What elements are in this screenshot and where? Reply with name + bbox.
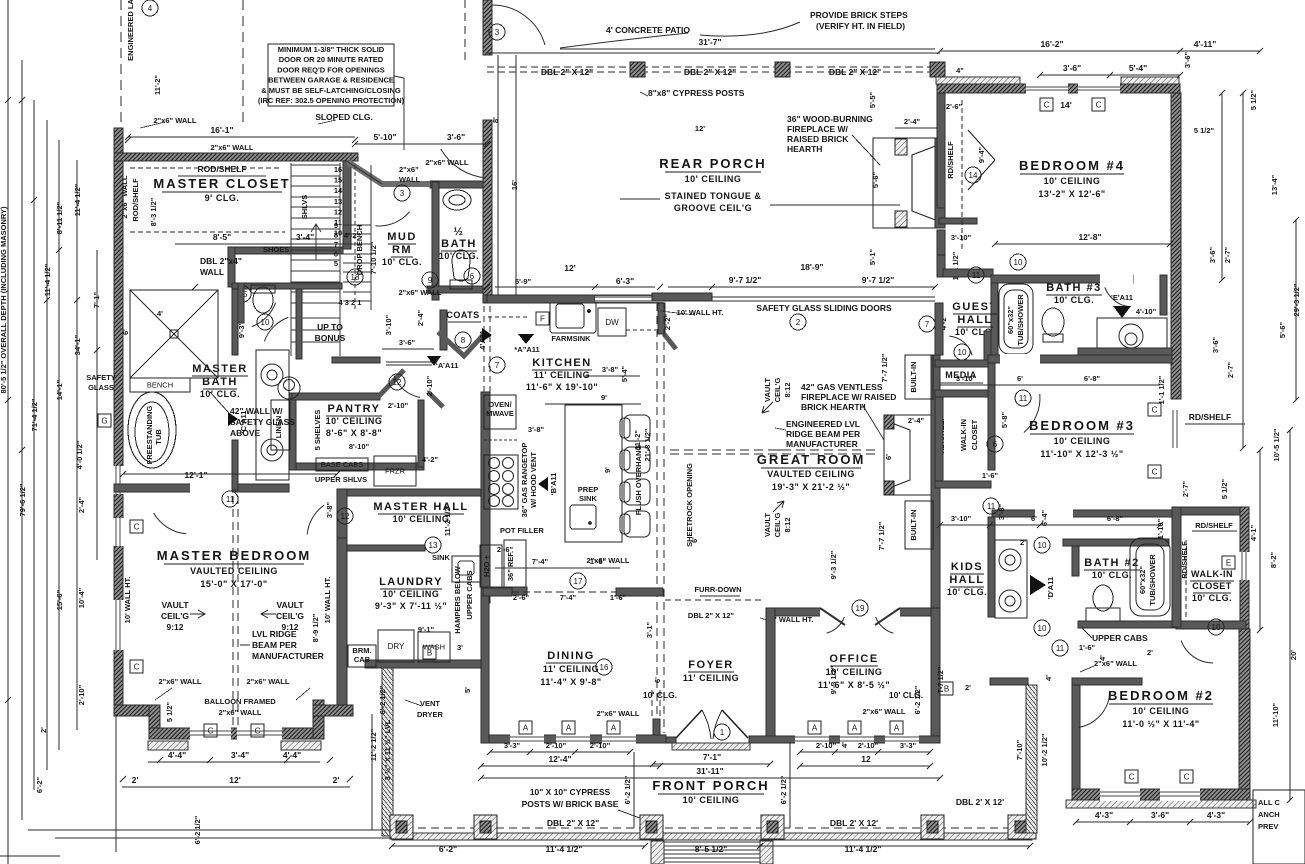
svg-text:7'-10 1/2": 7'-10 1/2" [369,241,378,274]
dining north wall east [616,588,663,596]
svg-text:3'-6": 3'-6" [1208,246,1217,263]
porch post [640,815,663,839]
svg-text:MWAVE: MWAVE [486,409,514,418]
svg-text:2'-7": 2'-7" [1223,246,1232,263]
svg-text:DBL 2" X 12": DBL 2" X 12" [829,67,881,77]
svg-text:5 SHELVES: 5 SHELVES [313,410,322,451]
svg-text:8'-5 1/2": 8'-5 1/2" [695,844,728,854]
svg-text:10' CEILING: 10' CEILING [683,795,740,805]
svg-text:POT FILLER: POT FILLER [500,526,544,535]
svg-text:LVL RIDGE: LVL RIDGE [252,629,297,639]
closet-bath wall [232,283,342,289]
svg-text:6: 6 [334,250,338,259]
bedroom2 south wall [1072,789,1250,800]
marker 6 [987,436,1003,452]
bay east wall [313,700,324,739]
pantry angled door wall [378,370,404,397]
svg-text:31'-7": 31'-7" [698,37,721,47]
svg-text:8'-10": 8'-10" [349,442,370,451]
svg-text:10' CLG.: 10' CLG. [439,251,479,261]
svg-text:6'-3": 6'-3" [616,276,634,286]
svg-text:6': 6' [121,329,130,335]
svg-text:H2O +: H2O + [482,554,491,577]
svg-text:13'-2" X 12'-6": 13'-2" X 12'-6" [1038,189,1105,199]
svg-text:3'-3": 3'-3" [504,741,521,750]
prep sink [570,505,596,529]
front steps [664,841,760,843]
svg-text:A: A [523,723,529,732]
built-in upper [905,355,933,399]
svg-text:CEIL'G: CEIL'G [773,377,782,402]
svg-text:3'-10": 3'-10" [951,514,972,523]
svg-text:2'-4": 2'-4" [904,117,921,126]
svg-text:11'-4 1/2": 11'-4 1/2" [546,844,583,854]
marker 11 [222,491,238,507]
svg-text:12': 12' [695,124,705,133]
svg-text:42" WALL W/: 42" WALL W/ [230,406,283,416]
porch post [761,815,784,839]
svg-text:(VERIFY HT. IN FIELD): (VERIFY HT. IN FIELD) [816,21,905,31]
svg-text:BETWEEN GARAGE & RESIDENCE: BETWEEN GARAGE & RESIDENCE [268,76,394,85]
svg-text:FLUSH OVERHANG: FLUSH OVERHANG [634,445,643,516]
bench [130,378,190,392]
svg-text:ALL C: ALL C [1258,798,1281,807]
marker 3 [489,24,505,40]
closet rod dashed [1185,540,1187,620]
rangetop [484,455,518,509]
porch header dashed [487,66,940,68]
office north wall [775,608,940,616]
svg-text:2'-10": 2'-10" [77,684,86,705]
svg-text:11'-6" X 19'-10": 11'-6" X 19'-10" [526,382,598,392]
cypress post [630,62,645,77]
bath2 south wall [1078,621,1178,628]
svg-text:BUILT-IN: BUILT-IN [909,509,918,540]
laundry north wall [347,545,425,551]
dim line right of door [789,742,791,828]
svg-text:6': 6' [1031,514,1037,523]
marker 10 [257,314,273,330]
marker 14 [965,167,981,183]
svg-text:6': 6' [1017,374,1023,383]
ridge dashed v [232,496,234,728]
foyer entry wall L [629,737,676,743]
svg-text:11'-2": 11'-2" [153,75,162,95]
svg-text:12: 12 [341,512,350,521]
svg-text:5'-9": 5'-9" [515,277,532,286]
dim rail [21,60,23,820]
closet door swing [1181,641,1213,663]
svg-text:RIDGE BEAM PER: RIDGE BEAM PER [786,429,860,439]
svg-text:13: 13 [429,541,438,550]
svg-text:8'-11 1/2": 8'-11 1/2" [55,201,64,234]
svg-text:LINEN: LINEN [274,416,283,439]
svg-text:3'-8": 3'-8" [997,503,1006,520]
svg-text:16: 16 [334,165,342,174]
bath3 south wall [1078,348,1172,356]
broom cab [348,645,376,667]
dining cased opening [512,591,616,593]
svg-text:4: 4 [148,4,153,13]
bedroom3 north wall [988,355,1172,363]
B marker [538,477,548,491]
svg-text:A: A [812,723,818,732]
svg-text:TUB: TUB [154,429,163,445]
svg-text:14: 14 [969,171,978,180]
svg-text:6': 6' [653,677,662,683]
wc2 toilet [278,377,300,399]
closet/stair wall [343,161,351,249]
bedroom2 north wall [1072,678,1142,685]
svg-text:11: 11 [972,271,981,280]
svg-text:11'-4" X 9'-8": 11'-4" X 9'-8" [540,677,601,687]
svg-text:PROVIDE BRICK STEPS: PROVIDE BRICK STEPS [810,10,908,20]
bath2 north wall [1063,539,1169,546]
svg-text:36" REF.: 36" REF. [506,551,515,581]
svg-text:G: G [101,416,107,425]
closet west wall [935,397,943,488]
svg-text:FARMSINK: FARMSINK [551,334,591,343]
svg-text:UPPER SHLVS: UPPER SHLVS [315,475,367,484]
kitchen west wall [481,392,490,603]
bath door swing [252,303,276,327]
svg-text:C: C [1152,405,1158,414]
media south wall [935,390,995,397]
mud entry angled wall [348,162,430,184]
svg-text:1'-6": 1'-6" [610,593,627,602]
svg-text:4': 4' [157,309,163,318]
svg-text:C: C [134,662,140,671]
master bath north wall [114,484,289,492]
svg-text:BALLOON FRAMED: BALLOON FRAMED [204,697,276,706]
window A1 [519,721,532,734]
svg-text:W/ HOOD VENT: W/ HOOD VENT [529,452,538,508]
svg-text:DW: DW [605,318,619,327]
bedroom4 north wall [937,84,1180,93]
svg-text:CLOSET: CLOSET [1192,581,1232,591]
svg-text:11'-4 1/2": 11'-4 1/2" [73,183,82,216]
svg-text:UPPER CABS: UPPER CABS [1092,633,1148,643]
svg-text:9': 9' [603,467,612,473]
dim rail [46,120,48,770]
svg-text:6'-2": 6'-2" [439,844,457,854]
svg-text:MASTER BEDROOM: MASTER BEDROOM [157,548,311,563]
dining south wall [481,735,666,743]
svg-text:10: 10 [1038,624,1047,633]
svg-text:1: 1 [720,728,725,737]
svg-text:14: 14 [334,186,343,195]
bath3 toilet [1042,308,1064,342]
svg-text:DRY: DRY [388,642,405,651]
svg-text:18'-9": 18'-9" [800,262,823,272]
svg-text:71'-4 1/2": 71'-4 1/2" [30,398,39,431]
marker 11 [1052,640,1068,656]
svg-text:4'-0 1/2": 4'-0 1/2" [75,440,84,469]
svg-text:2"x6": 2"x6" [399,165,419,174]
dim ticks [125,137,131,143]
svg-text:SLOPED CLG.: SLOPED CLG. [315,112,373,122]
svg-text:5'-4": 5'-4" [620,365,629,382]
svg-text:7'-4": 7'-4" [532,557,549,566]
cypress post [775,62,790,77]
svg-text:8:12: 8:12 [783,517,792,532]
svg-text:10' CEILING: 10' CEILING [1054,436,1111,446]
guest hall east wall [984,331,991,362]
svg-text:12'-1": 12'-1" [184,470,207,480]
svg-text:‘B’A11: ‘B’A11 [549,473,558,496]
note box [1253,790,1305,864]
svg-text:11' CEILING: 11' CEILING [534,370,590,380]
island [565,405,622,542]
guest hall NW wall [937,255,945,277]
marker 12 [337,508,353,524]
half bath east wall [483,120,492,303]
svg-text:11'-10" X 12'-3 ½": 11'-10" X 12'-3 ½" [1040,449,1123,459]
mud hall opening [386,361,432,363]
foyer dashed L [651,690,653,718]
svg-text:17: 17 [574,577,583,586]
svg-text:2'-10": 2'-10" [858,741,879,750]
svg-text:'E'A11: 'E'A11 [1111,293,1133,302]
marker 11 [983,498,999,514]
svg-text:19'-3" X 21'-2 ½": 19'-3" X 21'-2 ½" [772,482,850,492]
svg-text:11: 11 [226,495,235,504]
porch south wall west [487,295,595,303]
svg-text:BRICK HEARTH: BRICK HEARTH [801,402,866,412]
svg-text:CEIL'G: CEIL'G [276,611,304,621]
svg-text:4' CONCRETE PATIO: 4' CONCRETE PATIO [606,25,690,35]
porch post R [1008,815,1036,839]
svg-text:6'-2 1/2": 6'-2 1/2" [623,775,632,804]
east exterior wall [1171,93,1181,399]
svg-text:16'-2": 16'-2" [1040,39,1063,49]
coats west wall [440,310,447,350]
kids hall east wall top [988,355,995,470]
svg-text:7: 7 [495,361,500,370]
svg-text:SAFETY GLASS SLIDING DOORS: SAFETY GLASS SLIDING DOORS [756,303,892,313]
porch dashed [392,827,1032,829]
svg-text:2"x6" WALL: 2"x6" WALL [426,158,469,167]
mb door swing [154,513,187,534]
svg-text:8:12: 8:12 [783,382,792,397]
front door leaves [676,710,748,738]
svg-text:3'-6": 3'-6" [1211,336,1220,353]
svg-text:3'-8": 3'-8" [528,425,545,434]
H2O [480,545,502,587]
left exterior wall [114,128,123,715]
svg-text:3'-1": 3'-1" [645,621,654,638]
svg-text:8: 8 [461,336,466,345]
closet west wall [1172,507,1181,627]
svg-text:COATS: COATS [446,310,479,320]
svg-text:DBL 2' X 12': DBL 2' X 12' [956,797,1004,807]
svg-text:3'-6": 3'-6" [1063,63,1081,73]
svg-text:VAULTED CEILING: VAULTED CEILING [190,566,278,576]
svg-text:REAR PORCH: REAR PORCH [659,156,766,171]
toilet room [251,285,275,313]
svg-text:8'-6" X 8'-8": 8'-6" X 8'-8" [326,428,382,438]
svg-text:10' CLG.: 10' CLG. [1054,295,1094,305]
fridge [504,540,526,592]
svg-text:7'-7 1/2": 7'-7 1/2" [880,353,889,382]
svg-text:VAULT: VAULT [161,600,189,610]
coats angled walls [438,332,484,356]
'E' wall marker [1113,306,1131,318]
svg-text:11'-4 1/2": 11'-4 1/2" [845,844,882,854]
svg-text:12': 12' [564,263,575,273]
svg-text:8'-5": 8'-5" [213,232,231,242]
svg-text:RD/SHELF: RD/SHELF [1180,541,1189,579]
svg-text:FIREPLACE W/ RAISED: FIREPLACE W/ RAISED [801,392,896,402]
svg-text:8'-3 1/2": 8'-3 1/2" [149,197,158,226]
svg-text:3'-6": 3'-6" [1151,810,1169,820]
stairs up to bonus [291,164,340,166]
svg-text:5'-10": 5'-10" [373,132,396,142]
svg-text:A: A [566,723,572,732]
svg-text:RD/SHELF: RD/SHELF [946,141,955,179]
A marker [518,334,534,344]
svg-text:SINK: SINK [432,553,451,562]
grade line [28,829,392,831]
svg-text:GROOVE CEIL'G: GROOVE CEIL'G [674,203,752,213]
bath2 west wall [1072,546,1079,576]
svg-text:C: C [208,726,214,735]
stair bottom wall [332,357,380,363]
svg-text:PANTRY: PANTRY [328,403,381,415]
svg-text:9'-3 1/2": 9'-3 1/2" [829,550,838,579]
marker 6 [464,268,480,284]
front porch edge [392,833,1032,840]
svg-text:BEDROOM #4: BEDROOM #4 [1019,158,1125,173]
svg-text:10'-4": 10'-4" [77,587,86,608]
svg-text:10' CEILING: 10' CEILING [383,589,440,599]
front door swings [702,710,722,739]
svg-text:HEARTH: HEARTH [787,144,822,154]
svg-text:FOYER: FOYER [688,659,733,671]
svg-text:DOOR OR 20 MINUTE RATED: DOOR OR 20 MINUTE RATED [279,55,384,64]
svg-text:OVEN/: OVEN/ [488,400,512,409]
porch door swing [441,149,486,178]
wc wall [238,283,244,323]
svg-text:(IRC REF: 302.5 OPENING PROTEC: (IRC REF: 302.5 OPENING PROTECTION) [258,96,405,105]
pantry door swing [394,376,420,398]
svg-text:10: 10 [958,348,967,357]
svg-text:12'-4": 12'-4" [548,754,571,764]
svg-text:4": 4" [956,66,964,75]
marker [1034,620,1050,636]
svg-text:3'-4": 3'-4" [231,750,249,760]
svg-text:9'-7 1/2": 9'-7 1/2" [862,275,895,285]
svg-text:2"x6" WALL: 2"x6" WALL [219,708,262,717]
svg-text:10: 10 [1038,541,1047,550]
svg-text:3': 3' [457,643,463,652]
svg-text:31'-11": 31'-11" [696,766,723,776]
svg-text:9' CLG.: 9' CLG. [205,193,240,203]
svg-text:3'-8": 3'-8" [325,501,334,518]
dining west wall [481,596,489,743]
svg-text:10' WALL HT.: 10' WALL HT. [677,308,724,317]
svg-text:C: C [1184,772,1190,781]
svg-text:BONUS: BONUS [315,333,346,343]
svg-text:8': 8' [491,117,500,123]
svg-text:ENGINEERED LVL: ENGINEERED LVL [786,419,860,429]
mud door swing [376,212,410,226]
svg-text:C: C [1152,467,1158,476]
svg-text:10' CEILING: 10' CEILING [326,416,383,426]
marker 12 [389,374,405,390]
bath3 tub [999,284,1033,354]
svg-text:1'-6": 1'-6" [982,471,999,480]
kids vanity [995,540,1027,618]
svg-text:3'-4": 3'-4" [296,232,314,242]
dryer [378,630,414,662]
closet east wall [1240,507,1249,629]
svg-text:MUD: MUD [387,231,417,243]
marker B [940,682,953,695]
svg-text:GLASS: GLASS [88,383,114,392]
svg-text:11' CEILING: 11' CEILING [543,664,599,674]
masonry ledge bedroom4 R [1121,77,1179,84]
svg-text:DBL 2" X 12": DBL 2" X 12" [688,611,735,620]
svg-text:16': 16' [510,180,519,190]
svg-text:2"x6" WALL: 2"x6" WALL [159,677,202,686]
svg-text:10' CLG.: 10' CLG. [382,257,422,267]
svg-text:11: 11 [1056,644,1065,653]
kitchen opening dashed [483,306,485,392]
svg-text:36" GAS RANGETOP: 36" GAS RANGETOP [520,443,529,518]
patio edge line [487,52,940,54]
svg-text:4'-4": 4'-4" [168,750,186,760]
great room east wall [931,355,940,608]
svg-text:RAISED BRICK: RAISED BRICK [787,134,849,144]
svg-text:60"x32": 60"x32" [1006,306,1015,334]
svg-text:11'-2 1/2": 11'-2 1/2" [369,728,378,761]
porch west edge [497,55,499,295]
fireplace great room [884,415,934,495]
dishwasher [598,308,626,336]
svg-text:6'-2": 6'-2" [35,776,44,793]
svg-text:CEIL'G: CEIL'G [773,512,782,537]
center wall post [652,293,712,301]
svg-text:8'-9 1/2": 8'-9 1/2" [311,613,320,642]
freezer [374,456,416,486]
svg-text:B: B [427,648,432,657]
svg-text:2': 2' [132,775,139,785]
wc2 wall [296,289,302,359]
svg-text:RD/SHELF: RD/SHELF [1189,412,1232,422]
svg-text:VAULT: VAULT [763,378,772,402]
house west wall top [483,0,492,55]
svg-text:7'-10": 7'-10" [1015,739,1024,760]
svg-text:9'-3": 9'-3" [237,321,246,338]
svg-text:5'-6": 5'-6" [871,171,880,188]
svg-text:5 1/2": 5 1/2" [1194,126,1215,135]
svg-text:2': 2' [1147,648,1153,657]
svg-text:21'-8 1/2": 21'-8 1/2" [643,428,652,461]
bedroom2 masonry ledge [1066,800,1256,808]
svg-text:12: 12 [334,207,342,216]
svg-text:SAFETY: SAFETY [86,373,116,382]
pantry east wall [418,400,424,467]
ridge dashed [670,449,878,451]
hall door swing [307,505,324,534]
mb vanity [256,350,289,480]
window A2 [562,721,575,734]
svg-text:*A”A11: *A”A11 [514,345,539,354]
svg-text:2'-6": 2'-6" [513,593,530,602]
svg-text:15'-6": 15'-6" [55,589,64,610]
svg-text:6'-8": 6'-8" [1107,514,1124,523]
